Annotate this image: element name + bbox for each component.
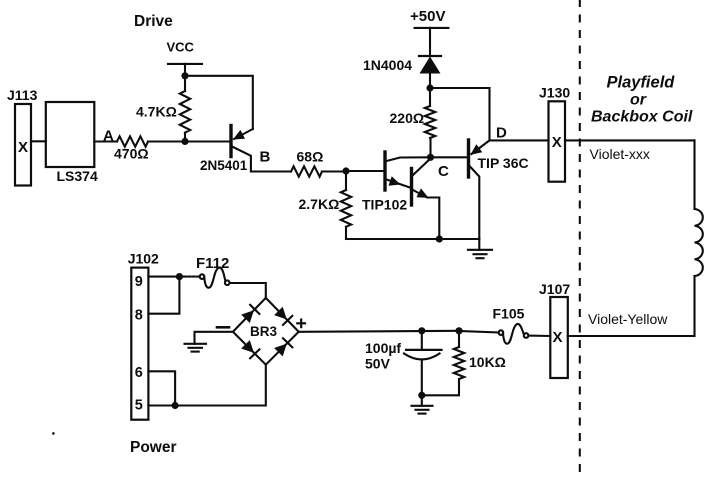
junction dot base node [181,138,188,145]
wire F105 to filter node [459,331,499,333]
wire base to TIP102 [346,170,385,172]
junction dot rail [436,235,443,242]
junction dot cap bottom [418,392,425,399]
junction dot pins 5-6 [172,402,179,409]
resistor 470ohm [117,136,148,146]
svg-text:X: X [552,329,562,346]
wire node C to TIP36C base [431,156,468,158]
svg-text:J130: J130 [539,85,570,101]
svg-text:D: D [496,125,507,142]
bridge diode bottom-left [241,340,259,358]
junction dot cap top [418,327,425,334]
wire J130 to coil [565,139,695,141]
junction dot node C [427,154,434,161]
transistor Q2 collector2 wire [413,159,431,176]
svg-text:Playfield: Playfield [607,74,676,92]
wire diode node to R220 [429,88,431,106]
svg-text:100µf: 100µf [365,340,401,356]
polarity minus sign [217,326,229,329]
transistor Q3 emitter arrow [471,144,483,155]
bridge diode top-right [274,307,292,325]
transistor Q3 collector wire [470,167,479,240]
transistor Q2 emitter1 wire [387,180,411,188]
wire node C to R220 [429,138,431,157]
resistor 2.7Kohm [341,190,351,227]
svg-text:Backbox Coil: Backbox Coil [591,109,693,126]
wire coil bottom [693,276,695,336]
connector J107 [550,297,568,378]
svg-text:220Ω: 220Ω [390,110,425,126]
resistor 68ohm [291,166,322,176]
resistor 220ohm [425,106,435,138]
diode D1 1N4004 triangle [420,57,441,74]
svg-text:VCC: VCC [167,40,195,55]
svg-text:LS374: LS374 [57,168,98,184]
power VCC bar [168,63,202,65]
wire coil to J107 [568,335,695,337]
ground symbol at bridge [185,344,207,352]
svg-text:BR3: BR3 [250,324,277,339]
transistor Q2 collector1 wire [387,157,431,161]
wire bridge to filter node [299,331,459,332]
svg-text:J107: J107 [539,281,570,297]
wire VCC stem [184,64,186,76]
connector J130 [549,101,566,181]
wire pin 6 [148,371,175,405]
svg-text:Violet-xxx: Violet-xxx [590,146,650,162]
junction dot pins 9-8 [176,273,183,280]
junction dot VCC node [181,72,188,79]
transistor Q2 emitter1 arrow [389,176,401,186]
ground symbol below capacitor [412,395,433,413]
wire J107 to fuse F105 [528,335,550,337]
stray mark [52,432,55,435]
bridge rectifier BR3 diamond [233,298,299,365]
wire bridge top to F112 [230,283,266,298]
transistor Q2 emitter2 wire [413,190,439,239]
transistor Q3 emitter wire [472,140,490,154]
wire bridge minus to ground [195,332,233,344]
svg-text:Drive: Drive [134,13,173,30]
wire R470 to base node [148,140,230,142]
wire +50V to diode [429,28,431,56]
wire D to J130 [490,139,549,141]
bridge diode bottom-right [274,338,292,356]
transistor Q3 TIP36C bar [467,140,470,177]
wire ground rail [346,238,479,240]
svg-text:J102: J102 [128,251,159,267]
wire R68 to node [322,170,346,172]
boundary dashed line [579,0,581,477]
fuse F105 [499,324,529,344]
resistor 10Kohm [454,347,464,379]
svg-text:TIP102: TIP102 [362,197,407,213]
wire R2.7K to rail [345,227,347,239]
svg-text:470Ω: 470Ω [114,146,149,162]
svg-text:1N4004: 1N4004 [363,57,412,73]
svg-text:X: X [552,134,562,151]
svg-text:Violet-Yellow: Violet-Yellow [588,311,668,327]
svg-text:68Ω: 68Ω [297,149,324,165]
IC U1 LS374 [46,102,95,167]
junction dot diode node [426,84,433,91]
wire VCC node to R4.7K [184,76,186,91]
svg-text:TIP 36C: TIP 36C [478,155,529,171]
transistor Q2 TIP102 bar2 [410,169,413,206]
wire pin5 node to bridge bottom [175,365,266,406]
svg-text:5: 5 [135,397,143,413]
junction dot 68/2.7K node [342,167,349,174]
svg-text:X: X [18,139,28,156]
fuse F112 [200,268,230,288]
svg-text:F112: F112 [196,255,229,272]
transistor Q1 2N5401 bar [229,126,232,157]
wire diode node to TIP36C emitter loop [430,88,490,140]
bridge diode top-left [241,305,259,323]
svg-text:8: 8 [135,307,143,323]
junction dot 10K node [455,327,462,334]
inductor coil L1 [695,209,703,276]
wire diode to node [429,74,431,89]
resistor 4.7Kohm [180,91,190,133]
wire LS374 to R 470 [94,140,117,142]
wire R10K to bottom [422,379,459,395]
svg-text:50V: 50V [365,356,391,372]
power +50V bar [415,27,449,29]
svg-text:4.7KΩ: 4.7KΩ [136,104,177,120]
wire coil top [693,140,695,209]
polarity plus sign [297,320,305,328]
diode D1 1N4004 cathode bar [419,55,441,57]
transistor Q1 collector wire [232,147,291,172]
wire node to R10K [458,331,460,347]
svg-text:10KΩ: 10KΩ [469,354,506,370]
svg-text:2.7KΩ: 2.7KΩ [299,196,340,212]
svg-text:+50V: +50V [410,8,445,25]
svg-text:F105: F105 [493,306,525,322]
ground symbol below TIP36C [468,239,492,258]
connector J113 [15,104,31,186]
svg-text:6: 6 [135,365,143,381]
svg-text:2N5401: 2N5401 [200,158,248,173]
wire pin 8 [148,277,179,314]
transistor Q1 emitter wire [234,129,253,139]
svg-text:C: C [438,163,449,180]
transistor Q1 emitter arrow [233,130,245,140]
transistor Q2 emitter2 arrow [416,188,428,198]
svg-text:9: 9 [135,274,143,290]
wire pin 9 [148,276,179,278]
wire pin 5 [148,404,175,406]
connector J102 [131,268,148,420]
wire dashed junction to F112 [179,276,199,278]
wire J113 to LS374 [31,140,46,142]
svg-text:J113: J113 [7,87,38,103]
wire node to R2.7K [345,171,347,190]
transistor Q2 TIP102 bar1 [383,152,386,190]
wire R4.7K to base node [184,133,186,141]
svg-text:or: or [630,92,647,109]
svg-text:B: B [260,149,271,166]
wire VCC node to emitter loop [185,76,253,129]
svg-text:Power: Power [130,439,177,456]
capacitor C1 100uf [404,331,442,396]
